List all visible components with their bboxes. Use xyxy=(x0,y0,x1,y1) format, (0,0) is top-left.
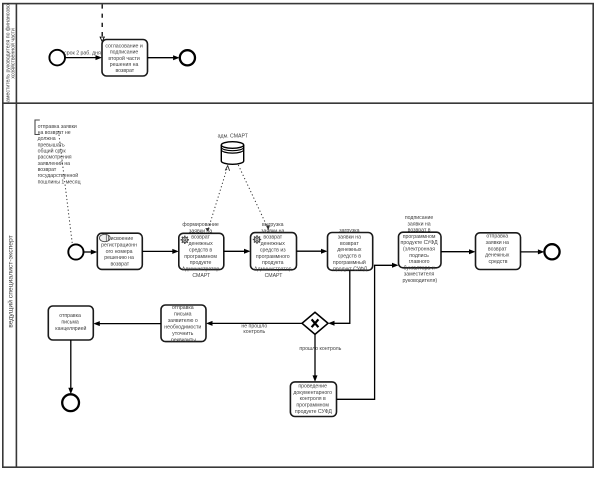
svg-text:хозяйственной части: хозяйственной части xyxy=(10,28,17,79)
sequence flow выгрузка -> загрузка xyxy=(297,249,328,254)
start event (lane 2) xyxy=(68,244,83,259)
task: загрузка заявки на возврат денежных средств в программный продукт СУФД xyxy=(328,228,373,272)
task: отправка заявки на возврат денежных средств xyxy=(476,233,521,270)
sequence flow gateway -> проведение контроля (прошло контроль) xyxy=(313,334,318,382)
task: выгрузка заявки на возврат денежных средств из программного продукта (Администратор СМАРТ) xyxy=(251,222,297,279)
sequence flow согласование -> end1 xyxy=(148,55,180,60)
service task gear icon (формирование) xyxy=(181,236,189,244)
sequence flow отправка заявки -> end event xyxy=(521,249,545,254)
sequence flow формирование -> выгрузка xyxy=(224,249,251,254)
task: согласование и подписание второй части решения на возврат xyxy=(102,40,148,77)
task: проведение документарного контроля в программном продукте СУФД xyxy=(290,382,336,417)
svg-text:подписание заявки на возврат в: подписание заявки на возврат в программн… xyxy=(401,215,440,284)
lane divider xyxy=(3,102,593,104)
sequence flow проведение -> подписание xyxy=(337,263,399,400)
sequence flow присвоение -> формирование xyxy=(142,249,179,254)
svg-text:отправка заявки на возврат ден: отправка заявки на возврат денежных сред… xyxy=(485,234,511,265)
sequence flow start1 -> согласование xyxy=(65,55,102,60)
task: присвоение регистрационного номера решению на возврат xyxy=(97,233,142,269)
end event (main path) xyxy=(544,244,559,259)
end event (lane 1) xyxy=(180,50,195,65)
user task icon (hand) xyxy=(99,234,110,241)
data association формирование <-> адм.СМАРТ (dotted, arrows both ends) xyxy=(205,166,229,232)
service task gear icon (выгрузка) xyxy=(253,235,261,243)
sequence flow заявителю -> канцелярией xyxy=(93,321,161,326)
message flow (dashed, into согласование task) xyxy=(100,4,104,41)
svg-text:срок 2 раб. дня: срок 2 раб. дня xyxy=(64,51,101,57)
exclusive gateway X xyxy=(302,312,328,334)
svg-text:адм. СМАРТ: адм. СМАРТ xyxy=(218,134,249,140)
task: формирование заявки на возврат денежных средств в программном продукте (Администратор СМАРТ) xyxy=(179,222,224,279)
start event (lane 1) xyxy=(49,50,65,66)
svg-text:контроль: контроль xyxy=(243,329,265,335)
lane label band divider xyxy=(15,4,17,468)
sequence flow загрузка -> gateway xyxy=(328,270,350,326)
sequence flow gateway -> отправка письма заявителю (не прошло контроль) xyxy=(206,321,302,326)
sequence flow start2 -> присвоение xyxy=(84,250,98,255)
text annotation: отправка заявки на возврат не должна превышать ... xyxy=(35,120,81,185)
svg-text:ведущий специалист-эксперт: ведущий специалист-эксперт xyxy=(6,235,14,328)
end event (letter path) xyxy=(62,394,79,411)
task: подписание заявки на возврат в программном продукте СУФД xyxy=(399,215,442,284)
sequence flow подписание -> отправка заявки xyxy=(441,249,476,254)
lane 1 label: заместитель руководителя по финансово-хозяйственной части xyxy=(5,2,16,104)
task: отправка письма заявителю о необходимости уточнить реквизиты xyxy=(161,305,206,344)
sequence flow канцелярией -> end event xyxy=(68,340,73,394)
svg-text:отправка заявки на возврат не: отправка заявки на возврат не должна пре… xyxy=(38,124,81,185)
data store: адм. СМАРТ xyxy=(221,142,243,165)
association annotation -> start event (dotted) xyxy=(59,131,73,244)
task: отправка письма канцелярией xyxy=(48,306,93,340)
svg-text:прошло контроль: прошло контроль xyxy=(299,346,341,352)
data association адм.СМАРТ -> выгрузка (dotted, arrow down) xyxy=(238,165,270,231)
